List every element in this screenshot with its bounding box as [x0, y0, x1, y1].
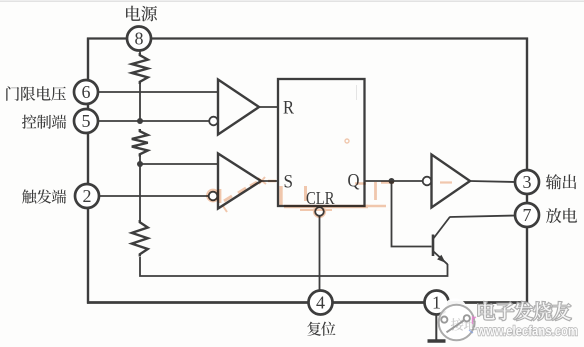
wire: pin 6 threshold to comparator U1 input	[98, 91, 218, 93]
resistor R1 (VCC to threshold node)	[132, 53, 148, 84]
wire: R1 bottom to control node	[139, 84, 141, 121]
svg-text:Q: Q	[348, 171, 360, 192]
label 复位 (reset) below pin 4	[307, 322, 321, 336]
svg-text:7: 7	[523, 205, 532, 225]
svg-text:4: 4	[316, 293, 325, 313]
junction node Q-branch	[389, 178, 395, 184]
wire: R2 bottom to node B	[139, 157, 141, 165]
pin 7 discharge	[515, 203, 539, 227]
resistor R2 (control node to trigger reference node)	[132, 129, 148, 157]
wire: Q node down to transistor base	[392, 181, 432, 247]
pin 4 reset	[309, 291, 333, 315]
transistor Q1 collector	[433, 217, 450, 239]
pin 5 control	[74, 109, 98, 133]
wire: node B down to R3	[139, 164, 141, 220]
label 输出 (output) at pin 3	[546, 174, 562, 189]
label 控制端 (control terminal) at pin 5	[22, 115, 37, 129]
IC package outline: top border	[87, 37, 528, 39]
pin 1 ground	[425, 291, 449, 315]
wire: pin 7 discharge to transistor collector	[450, 216, 517, 218]
pin 8 VCC	[127, 27, 151, 51]
wire: pin 2 trigger to comparator U2 inverting bubble	[98, 195, 209, 197]
IC package outline: bottom border	[87, 301, 528, 304]
svg-text:3: 3	[523, 172, 532, 192]
resistor R3 (reference node to ground rail)	[132, 220, 148, 257]
wire: pin 5 control to comparator U1 inverting bubble, through divider node	[98, 120, 210, 122]
label 放电 (discharge) at pin 7	[546, 208, 561, 223]
inverting input bubble of U2	[209, 192, 218, 201]
white halo behind watermark	[444, 299, 466, 316]
watermark text 电子发烧友	[478, 302, 571, 320]
wire: comparator U1 output to flip-flop R input	[259, 106, 278, 108]
svg-text:1: 1	[432, 293, 441, 313]
ground symbol below pin 1	[435, 314, 437, 340]
IC package outline: right border	[526, 38, 528, 304]
pin 6 threshold	[74, 80, 98, 104]
junction node B: R2/R3/U2 input	[137, 161, 143, 167]
wire: CLR bubble down to pin 4 reset	[319, 216, 321, 292]
scan edge artifact at top	[0, 0, 584, 2]
transistor Q1 emitter with arrow	[433, 251, 448, 264]
wire: flip-flop Q output to inverter buffer bubble	[364, 180, 423, 182]
transistor Q1 discharge: base bar	[432, 235, 435, 257]
inverting input bubble of U1	[209, 117, 218, 126]
faint scan artifact line	[356, 85, 358, 100]
RS flip-flop U3 box	[278, 79, 365, 206]
junction node A: R1/R2/pin5 control voltage	[137, 118, 143, 124]
pin 2 trigger	[75, 184, 99, 208]
label 触发端 (trigger terminal) at pin 2	[22, 189, 36, 203]
wire: divider midpoint to comparator U2 input	[140, 163, 218, 165]
wire: comparator U2 output to flip-flop S input	[261, 180, 278, 182]
faint 接地 ground label under logo	[451, 318, 477, 331]
svg-text:8: 8	[135, 29, 144, 49]
label 门限电压 (threshold voltage) at pin 6	[6, 86, 19, 101]
inverter buffer U4 input bubble	[423, 177, 432, 186]
faint salmon stamp watermark	[207, 139, 452, 217]
svg-text:6: 6	[82, 82, 91, 102]
logo inner percent mark	[441, 315, 470, 332]
IC package outline: left border	[87, 38, 89, 304]
op-amp comparator U2 (trigger)	[218, 154, 261, 209]
svg-text:R: R	[283, 97, 294, 118]
svg-text:2: 2	[83, 186, 92, 206]
label 电源 (power) above pin 8	[126, 6, 140, 21]
stray pink mark	[473, 316, 477, 324]
wire: top rail pin 8 into divider	[139, 49, 141, 54]
op-amp comparator U1 (threshold)	[218, 80, 259, 135]
wire: divider bottom / emitter ground rail	[140, 257, 448, 276]
CLR active-low bubble	[315, 207, 324, 216]
wire: buffer output to pin 3	[470, 181, 516, 182]
svg-text:5: 5	[82, 111, 91, 131]
pin 3 output	[515, 170, 539, 194]
watermark logo circle	[439, 305, 475, 341]
svg-text:S: S	[284, 171, 294, 192]
inverter buffer U4	[432, 155, 471, 208]
svg-text:www.elecfans.com: www.elecfans.com	[476, 324, 578, 339]
